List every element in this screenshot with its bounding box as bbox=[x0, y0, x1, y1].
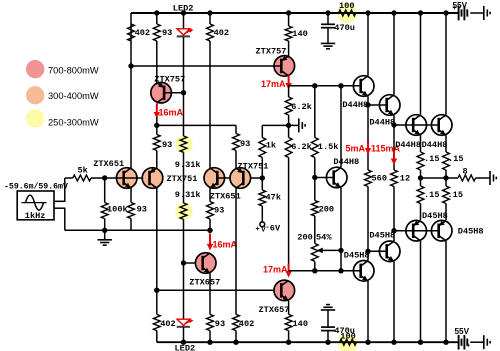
wire ZTX757-1 base to node A bbox=[131, 65, 281, 67]
node D44H8-5 collector (junction) bbox=[338, 83, 343, 88]
resistor R 93 mid-mid bbox=[233, 134, 240, 151]
svg-text:200: 200 bbox=[297, 233, 312, 243]
ground at C2 bbox=[321, 309, 335, 311]
highlight 250-300mW on R 100 top bbox=[337, 4, 357, 24]
svg-text:D44H8: D44H8 bbox=[342, 100, 368, 110]
wire D45H8-b collector up bbox=[367, 251, 369, 260]
wire D44H8-1 collector to rail bbox=[367, 13, 369, 76]
wire D down to ZTX651-3 collector bbox=[209, 41, 211, 168]
svg-text:9.31k: 9.31k bbox=[175, 190, 201, 200]
svg-text:6.2k: 6.2k bbox=[291, 102, 312, 112]
node output bases upper (junction) bbox=[391, 122, 396, 127]
svg-text:1k: 1k bbox=[266, 141, 276, 151]
svg-text:470u: 470u bbox=[334, 326, 355, 336]
node pot bottom (junction) bbox=[312, 268, 317, 273]
node B wire-A (junction) bbox=[156, 117, 158, 135]
wire to ZTX757-1 emitter bbox=[288, 41, 290, 56]
wire bottom return y=230 bbox=[65, 229, 210, 231]
ground at C1 bbox=[321, 42, 335, 44]
resistor R 140 top bbox=[285, 26, 292, 41]
svg-text:+: + bbox=[256, 226, 260, 233]
svg-text:.15: .15 bbox=[424, 190, 439, 200]
ground at input bbox=[104, 230, 106, 239]
wire column B from rail bbox=[156, 13, 158, 24]
resistor R 200 bbox=[314, 178, 316, 201]
wire ZTX657-1 emitter down to 93 bottom bbox=[209, 273, 211, 314]
current arrow 17mA lower bbox=[288, 264, 290, 274]
resistor R 140 bottom bbox=[288, 301, 290, 315]
svg-text:9.31k: 9.31k bbox=[175, 160, 201, 170]
wire C down to ZTX657-1 base node bbox=[183, 219, 185, 263]
wire B to ZTX751-2 emitter bbox=[156, 151, 158, 169]
wire D44H8-3 collector to rail bbox=[420, 13, 422, 115]
wire D45H8-c emitter to rail bbox=[420, 241, 422, 342]
svg-text:12: 12 bbox=[400, 174, 410, 184]
wire D44H8-2 emitter down bbox=[393, 115, 395, 170]
resistor R 93 top bbox=[153, 24, 160, 41]
wire column C from rail bbox=[183, 13, 185, 29]
current arrow 115mA bbox=[393, 152, 395, 161]
resistor R 100k bbox=[104, 178, 106, 203]
wire column F from bias wire bbox=[261, 125, 263, 137]
resistor R 1.5k bbox=[311, 138, 318, 158]
wire column D from rail bbox=[209, 13, 211, 24]
wire D45H8-d emitter to rail bbox=[445, 241, 447, 342]
resistor R 1k bbox=[259, 138, 266, 158]
node top rail junctions bbox=[154, 10, 159, 15]
wire D44H8-4 collector to rail bbox=[445, 13, 447, 115]
svg-text:LED2: LED2 bbox=[175, 344, 196, 351]
wire G down to ZTX657-2 bbox=[288, 158, 290, 267]
svg-text:16mA: 16mA bbox=[213, 240, 238, 250]
wire column G from rail bbox=[288, 13, 290, 26]
svg-text:V: V bbox=[261, 227, 266, 234]
node input (junction) bbox=[102, 175, 107, 180]
svg-text:100: 100 bbox=[339, 1, 354, 11]
wire ZTX757-2 base to column C bbox=[164, 92, 183, 94]
svg-text:402: 402 bbox=[214, 28, 229, 38]
svg-text:D45H8: D45H8 bbox=[344, 250, 370, 260]
legend 300-400mW bbox=[26, 86, 44, 104]
current arrow 17mA upper bbox=[288, 76, 290, 86]
wire D45H8-a emitter to rail bbox=[393, 262, 395, 343]
wire 5k to input node bbox=[91, 177, 105, 179]
node output bases lower (junction) bbox=[391, 228, 396, 233]
resistor R 402 bottom-2 bbox=[233, 314, 240, 330]
node ZTX657-1 base (junction) bbox=[181, 260, 186, 265]
ground at bottom battery bbox=[483, 335, 485, 349]
svg-text:ZTX751: ZTX751 bbox=[167, 174, 198, 184]
pot wiper arrow bbox=[322, 249, 342, 251]
current arrow 16mA upper bbox=[156, 104, 158, 115]
resistor R 9.31k upper (yellow) bbox=[183, 93, 185, 136]
resistor R 47k bbox=[261, 178, 263, 190]
node D44H8-5 base (junction) bbox=[312, 175, 317, 180]
resistor R 12 bbox=[391, 170, 398, 186]
wire top +55V rail bbox=[131, 12, 459, 14]
svg-text:6.2k: 6.2k bbox=[291, 142, 312, 152]
resistor R 93 mid-right bbox=[209, 188, 211, 202]
svg-text:250-300mW: 250-300mW bbox=[48, 117, 99, 127]
svg-text:93: 93 bbox=[214, 206, 224, 216]
ground at load bbox=[489, 171, 491, 185]
svg-text:.15: .15 bbox=[424, 154, 439, 164]
wire column H from VAS wire bbox=[312, 83, 317, 88]
node output M (junction) bbox=[443, 175, 448, 180]
legend 250-300mW bbox=[26, 109, 44, 127]
resistor R 100 top (yellow) bbox=[339, 10, 356, 16]
svg-text:402: 402 bbox=[135, 28, 150, 38]
wire source bottom stub bbox=[54, 207, 65, 209]
wire pot bottom to lower wire bbox=[314, 261, 316, 271]
highlight 250-300mW on R 9.31k upper bbox=[175, 136, 193, 154]
legend 700-800mW bbox=[26, 60, 44, 78]
svg-text:93: 93 bbox=[240, 139, 250, 149]
svg-text:D44H8: D44H8 bbox=[333, 157, 359, 167]
svg-text:17mA: 17mA bbox=[261, 79, 286, 89]
svg-text:93: 93 bbox=[162, 140, 172, 150]
capacitor C1 470u top bbox=[327, 13, 329, 24]
wire VAS node to D44H8-1 base bbox=[289, 85, 361, 87]
resistor R 402 top-left bbox=[128, 24, 135, 41]
wire 12 down to lower base node bbox=[393, 187, 395, 242]
svg-text:16mA: 16mA bbox=[159, 108, 184, 118]
resistor R .15 top-left bbox=[420, 135, 422, 152]
svg-text:560: 560 bbox=[372, 174, 387, 184]
terminal +V 6V bbox=[261, 206, 263, 222]
wire input node to bases Q3/Q4 bbox=[105, 177, 150, 179]
node D44H8-2 base (junction) bbox=[365, 102, 370, 107]
ground at top battery bbox=[483, 6, 485, 20]
resistor R 93 mid-left bbox=[153, 135, 160, 151]
wire D44H8-2 collector to rail bbox=[393, 13, 395, 95]
wire D45H8-b emitter to rail bbox=[367, 281, 369, 342]
svg-text:D44H8: D44H8 bbox=[422, 140, 448, 150]
ground mid (bias) bbox=[298, 118, 300, 132]
wire column A from rail bbox=[130, 13, 132, 66]
wire source top stub bbox=[54, 200, 65, 202]
LED2 bottom bbox=[183, 263, 185, 319]
transistor ZTX751 Q4 (pnp) bbox=[142, 168, 163, 189]
resistor R 402 bottom-left bbox=[156, 290, 158, 314]
wire to ZTX657-2 base bbox=[157, 289, 281, 291]
wire 560 to D45H8-a base node bbox=[367, 187, 369, 252]
node wiper (junction) bbox=[338, 248, 343, 253]
svg-text:D45H8: D45H8 bbox=[458, 226, 484, 236]
svg-text:1.5k: 1.5k bbox=[318, 142, 339, 152]
svg-text:.15: .15 bbox=[448, 154, 463, 164]
node source return (junction) bbox=[102, 228, 107, 233]
svg-text:47k: 47k bbox=[266, 193, 281, 203]
svg-text:93: 93 bbox=[162, 28, 172, 38]
resistor R 560 bbox=[365, 170, 372, 186]
svg-text:ZTX651: ZTX651 bbox=[210, 191, 241, 201]
svg-text:+: + bbox=[452, 3, 457, 12]
svg-text:ZTX657: ZTX657 bbox=[189, 278, 220, 288]
wire bottom -55V rail bbox=[157, 341, 459, 343]
wire bases Q6/Q7 to node F bbox=[217, 177, 262, 179]
svg-text:300-400mW: 300-400mW bbox=[48, 91, 99, 101]
svg-text:D44H8: D44H8 bbox=[369, 118, 395, 128]
node feedback return (junction) bbox=[207, 228, 212, 233]
wire E to ZTX751-4 collector bbox=[235, 151, 237, 169]
resistor R .15 top-right bbox=[445, 135, 447, 152]
resistor R 6.2k lower bbox=[288, 125, 290, 137]
svg-text:140: 140 bbox=[293, 319, 308, 329]
svg-text:5mA: 5mA bbox=[346, 144, 366, 154]
node Q7 base / feedback (junction) bbox=[260, 175, 265, 180]
wire lower VAS node to D45H8-b base bbox=[289, 270, 361, 272]
svg-text:ZTX657: ZTX657 bbox=[259, 305, 290, 315]
node bias/6.2k (junction) bbox=[286, 123, 291, 128]
svg-text:93: 93 bbox=[137, 204, 147, 214]
svg-text:100k: 100k bbox=[107, 204, 128, 214]
wire C between 9.31k bbox=[183, 152, 185, 203]
node lower wire I (junction) bbox=[338, 268, 343, 273]
svg-text:1kHz: 1kHz bbox=[25, 211, 46, 221]
svg-text:55V: 55V bbox=[455, 327, 470, 336]
wire D44H8-5 emitter down bbox=[340, 188, 342, 271]
node bottom rail junctions bbox=[181, 340, 186, 345]
wire ZTX751-4 emitter down to 402 bottom-2 bbox=[235, 188, 237, 314]
svg-text:6V: 6V bbox=[270, 223, 281, 233]
wire D44H8-1 emitter down bbox=[367, 96, 369, 170]
wire D44H8-5 collector up to VAS wire bbox=[340, 86, 342, 168]
pot R 200 54% bbox=[314, 216, 316, 244]
highlight 250-300mW on R 100 bottom bbox=[338, 334, 358, 351]
svg-text:402: 402 bbox=[160, 319, 175, 329]
svg-text:ZTX651: ZTX651 bbox=[93, 159, 124, 169]
svg-text:D45H8: D45H8 bbox=[422, 211, 448, 221]
wire bias node to ground bbox=[262, 124, 299, 126]
svg-text:D44H8: D44H8 bbox=[395, 140, 421, 150]
svg-text:402: 402 bbox=[239, 319, 254, 329]
svg-text:140: 140 bbox=[292, 29, 307, 39]
svg-text:.15: .15 bbox=[448, 190, 463, 200]
wire ZTX751-2 collector down to node 290 bbox=[156, 188, 158, 290]
svg-text:93: 93 bbox=[215, 319, 225, 329]
resistor R 100 bottom (yellow) bbox=[340, 339, 357, 345]
wire A to 93-mid-mid bbox=[157, 124, 236, 126]
svg-text:470u: 470u bbox=[334, 23, 355, 33]
capacitor C2 470u bottom bbox=[327, 331, 329, 342]
node ZTX757-2 base (junction) bbox=[181, 90, 186, 95]
svg-text:D45H8: D45H8 bbox=[369, 230, 395, 240]
svg-text:54%: 54% bbox=[316, 233, 332, 243]
resistor R 93 bottom bbox=[207, 314, 214, 330]
resistor R .15 bottom-left bbox=[420, 178, 422, 186]
resistor R .15 bottom-right bbox=[445, 178, 447, 186]
highlight 250-300mW on R 9.31k lower bbox=[175, 203, 193, 221]
wire A down to ZTX651-1 collector bbox=[130, 66, 132, 168]
current arrow 5mA bbox=[367, 141, 369, 150]
node D45H8-a base (junction) bbox=[365, 249, 370, 254]
resistor R 402 top-2 bbox=[207, 24, 214, 41]
node output L (junction) bbox=[418, 175, 423, 180]
svg-text:17mA: 17mA bbox=[263, 265, 288, 275]
current arrow 16mA lower bbox=[209, 234, 211, 246]
wire output node bbox=[421, 177, 459, 179]
wire B 93 to ZTX757-2 emitter bbox=[156, 41, 158, 83]
resistor R 6.2k upper bbox=[288, 86, 290, 97]
node ZTX657-2 base wire (junction) bbox=[154, 288, 159, 293]
node A/ZTX757-1 base (junction) bbox=[128, 63, 133, 68]
svg-text:700-800mW: 700-800mW bbox=[48, 65, 99, 75]
svg-text:200: 200 bbox=[319, 205, 334, 215]
resistor R 93 below ZTX651-1 emitter bbox=[130, 188, 132, 203]
